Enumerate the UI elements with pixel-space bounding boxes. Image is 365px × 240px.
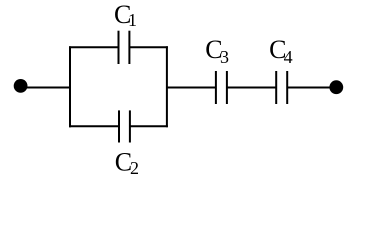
capacitor C4: [276, 71, 287, 104]
wire: C4 to right terminal: [287, 87, 336, 89]
wire: box right vertical: [166, 46, 168, 127]
wire: box top-right segment: [129, 46, 168, 48]
wire: left terminal to parallel box: [20, 87, 71, 89]
capacitor C3: [216, 71, 227, 104]
wire: box bottom-right segment: [130, 125, 168, 127]
right terminal: [329, 80, 343, 94]
svg-text:C2: C2: [115, 147, 139, 178]
label C1: [114, 0, 137, 30]
wire: box left vertical: [69, 46, 71, 127]
left terminal: [14, 79, 28, 93]
svg-text:C4: C4: [269, 35, 292, 67]
capacitor C1: [119, 31, 130, 64]
wire: C3 to C4: [227, 87, 276, 89]
label C4: [269, 35, 292, 67]
svg-text:C1: C1: [114, 0, 137, 30]
label C2: [115, 147, 139, 178]
label C3: [205, 35, 229, 67]
wire: box to C3: [167, 87, 216, 89]
svg-text:C3: C3: [205, 35, 229, 67]
wire: box top-left segment: [69, 46, 119, 48]
wire: box bottom-left segment: [69, 125, 119, 127]
capacitor C2: [119, 110, 130, 142]
